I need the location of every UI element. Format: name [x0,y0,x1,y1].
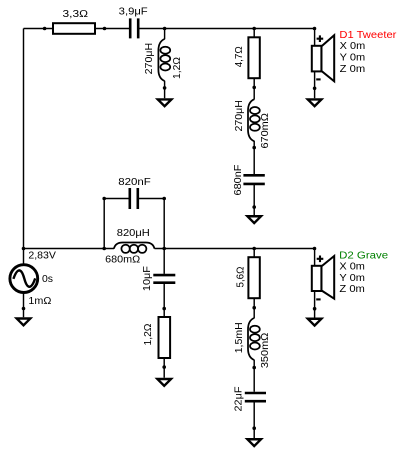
svg-text:22μF: 22μF [234,387,245,412]
svg-text:Z 0m: Z 0m [339,284,365,295]
svg-text:1mΩ: 1mΩ [28,296,52,307]
svg-text:D1 Tweeter: D1 Tweeter [339,30,397,41]
svg-text:4,7Ω: 4,7Ω [234,46,245,68]
svg-text:680mΩ: 680mΩ [105,255,141,266]
svg-text:Y 0m: Y 0m [339,273,365,284]
svg-text:Z 0m: Z 0m [340,64,366,75]
svg-text:820nF: 820nF [118,177,151,188]
svg-text:2,83V: 2,83V [28,250,56,261]
svg-text:3,3Ω: 3,3Ω [63,9,89,20]
svg-text:350mΩ: 350mΩ [260,332,271,368]
svg-text:10μF: 10μF [142,266,153,291]
svg-text:X 0m: X 0m [339,262,365,273]
svg-text:670mΩ: 670mΩ [260,112,271,148]
svg-text:3,9μF: 3,9μF [119,7,148,18]
svg-text:5,6Ω: 5,6Ω [235,266,246,288]
svg-text:270μH: 270μH [144,43,155,75]
svg-text:D2 Grave: D2 Grave [339,250,388,261]
svg-text:820μH: 820μH [117,228,150,239]
svg-text:0s: 0s [42,274,53,285]
svg-text:1,2Ω: 1,2Ω [172,56,183,79]
svg-text:X 0m: X 0m [340,41,366,52]
svg-text:680nF: 680nF [233,165,244,196]
svg-text:1,2Ω: 1,2Ω [143,323,154,346]
svg-text:1,5mH: 1,5mH [234,322,245,353]
svg-text:270μH: 270μH [234,100,245,132]
svg-text:Y 0m: Y 0m [340,53,366,64]
